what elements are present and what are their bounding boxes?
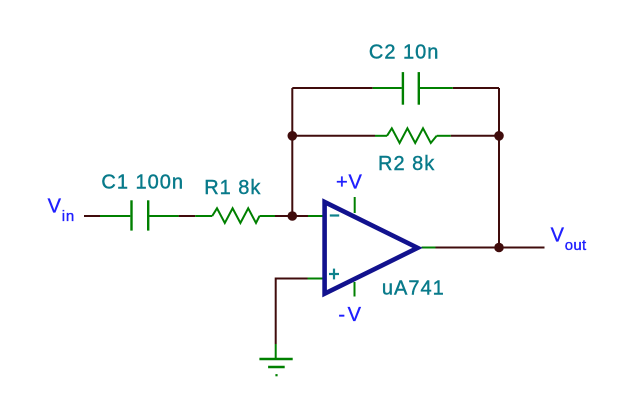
- svg-text:Vin: Vin: [48, 195, 75, 224]
- svg-text:C1 100n: C1 100n: [101, 172, 184, 194]
- svg-text:+V: +V: [336, 172, 363, 194]
- svg-text:R2 8k: R2 8k: [378, 153, 435, 175]
- svg-text:-V: -V: [338, 304, 363, 326]
- svg-text:Vout: Vout: [551, 225, 587, 255]
- svg-text:C2 10n: C2 10n: [369, 42, 440, 64]
- svg-text:uA741: uA741: [382, 278, 445, 300]
- svg-text:R1 8k: R1 8k: [204, 177, 261, 199]
